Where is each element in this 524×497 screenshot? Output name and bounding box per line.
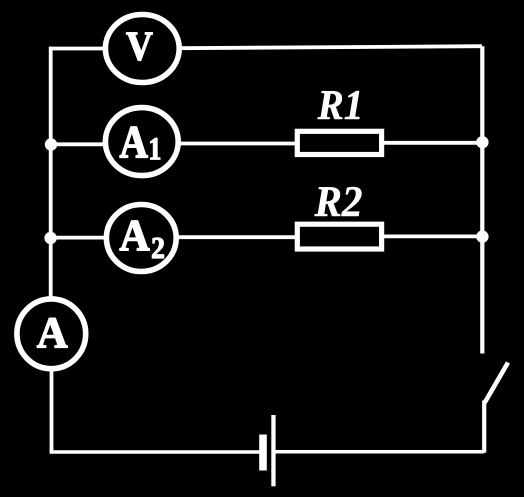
wire bottom-right horizontal [275,450,485,454]
wire left vertical lower [50,371,54,453]
wire branch A1 left [51,142,106,146]
ammeter A2 [106,205,176,272]
wire switch pivot vertical [482,401,486,453]
ammeter A [17,299,86,369]
node junction right R1 [476,136,488,148]
wire A2 to R2 [177,235,299,239]
resistor R2 [297,224,381,249]
label R1 [318,91,360,119]
wire right vertical [480,46,484,353]
wire top-right horizontal [178,46,482,48]
wire R1 to right vertical [382,141,483,145]
battery negative plate (short) [259,435,267,471]
ammeter A1 [105,108,178,176]
wire bottom-left horizontal [50,450,260,454]
label R2 [315,187,362,216]
voltmeter V [105,15,179,83]
node junction left A1 [45,138,57,150]
resistor R1 [297,131,381,154]
wire top-left horizontal [49,47,106,51]
node junction left A2 [44,232,56,244]
wire A1 to R1 [177,142,298,146]
wire left vertical upper [49,47,53,297]
wire branch A2 left [51,236,106,240]
switch blade [485,363,509,404]
battery positive plate (long) [271,415,275,486]
wire R2 to right vertical [382,234,483,238]
node junction right R2 [476,230,488,242]
